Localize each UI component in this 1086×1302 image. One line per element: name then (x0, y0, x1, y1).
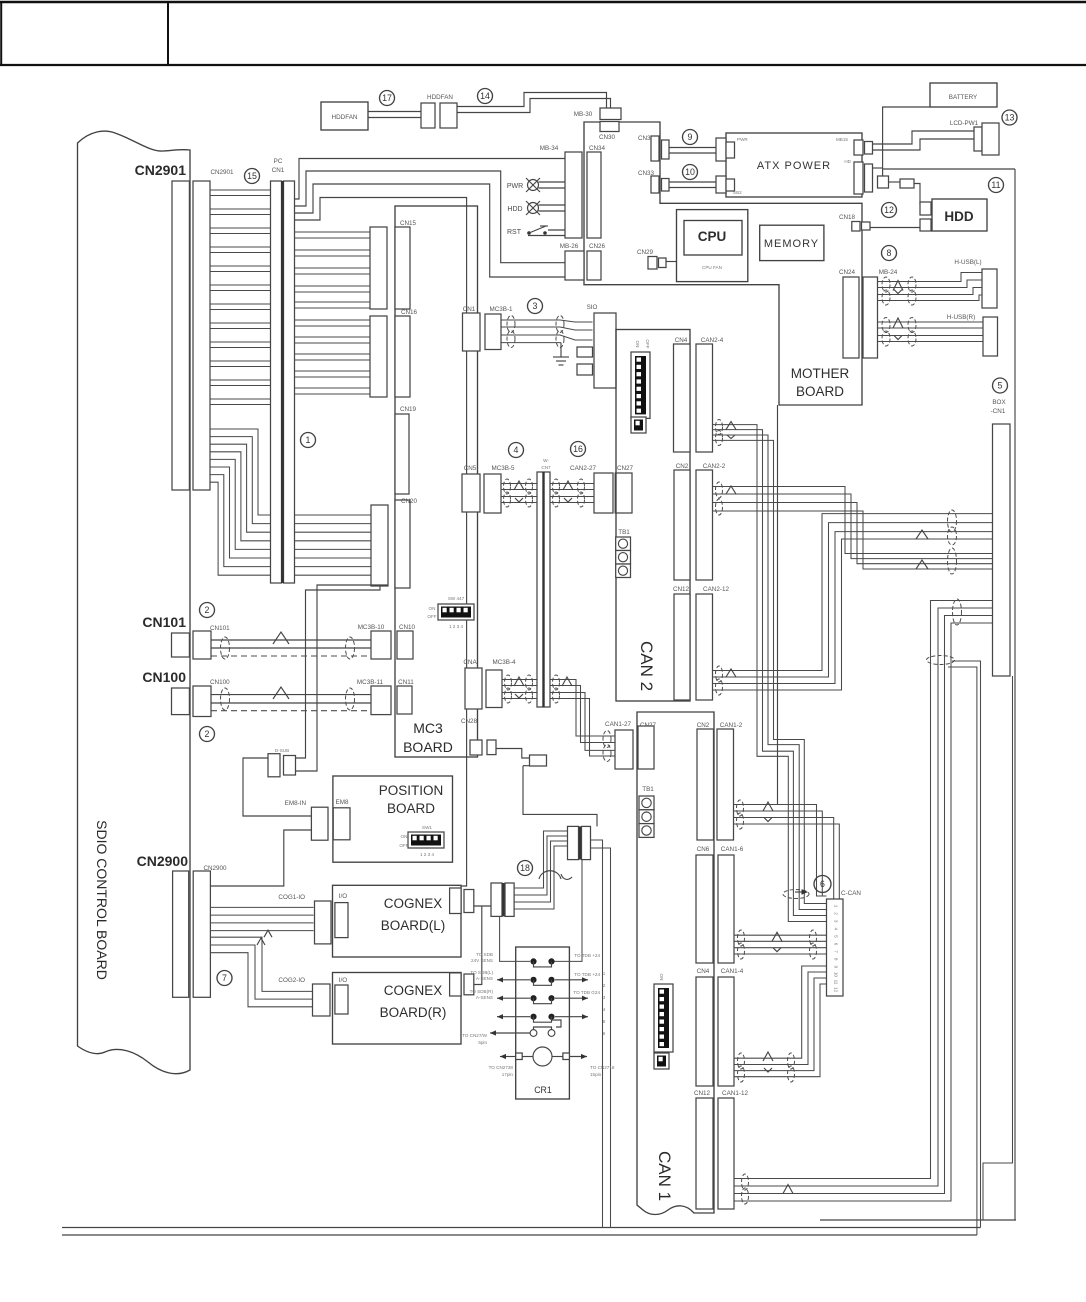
svg-text:1 2 3 4: 1 2 3 4 (420, 852, 434, 857)
connector CAN1-12 (718, 1098, 734, 1209)
wire MC3B-5 to W-CN7 bar (501, 483, 537, 485)
BATTERY box (930, 83, 997, 107)
svg-text:MOTHER: MOTHER (791, 366, 850, 381)
svg-text:MEMORY: MEMORY (764, 238, 819, 250)
svg-text:7: 7 (834, 950, 839, 953)
connector D-SUB b (284, 756, 296, 776)
svg-text:CN18: CN18 (839, 214, 856, 221)
ribbon cable PC CN1 to CN15 (295, 231, 371, 233)
svg-text:CAN1-6: CAN1-6 (721, 846, 744, 853)
svg-text:CPU FAN: CPU FAN (702, 265, 722, 270)
svg-text:MB-30: MB-30 (574, 111, 593, 118)
svg-text:17: 17 (382, 93, 392, 103)
connector CN4 (674, 344, 691, 452)
connector C-CAN (827, 899, 844, 996)
MOTHER BOARD outline (584, 122, 862, 405)
connector CAN2-4 (696, 344, 713, 452)
CPU outer box (677, 210, 748, 282)
DIP switch (position board) (408, 832, 444, 848)
svg-text:17pin: 17pin (502, 1072, 514, 1077)
enclosure top edge (883, 168, 1015, 170)
svg-text:TB1: TB1 (642, 786, 654, 793)
connector COGNEX(L) out b (464, 890, 474, 913)
svg-text:CN100: CN100 (142, 669, 186, 685)
callout 13 (1002, 110, 1017, 125)
connector CAN1-27 (615, 730, 633, 769)
callout 1 (301, 433, 316, 448)
svg-text:CN12: CN12 (694, 1090, 711, 1097)
connector CN33 b (662, 179, 670, 192)
wire BATTERY down to node (883, 107, 930, 176)
svg-text:OFF: OFF (427, 614, 436, 619)
wire CN29 to CPU (666, 261, 677, 263)
svg-text:CN29: CN29 (637, 249, 654, 256)
svg-text:PC: PC (274, 158, 283, 165)
svg-text:EM8: EM8 (336, 799, 349, 806)
DIP switch 1pos (CAN2) (631, 417, 646, 433)
svg-text:BOARD: BOARD (387, 801, 435, 816)
connector CN100 outer (172, 688, 190, 715)
wire USB group L (878, 273, 983, 282)
connector CN2900 inner (193, 871, 210, 997)
wire ATX to LCD-PW upper (873, 131, 975, 144)
svg-text:13: 13 (1005, 113, 1015, 123)
connector CN30 (600, 122, 619, 132)
svg-text:11: 11 (991, 180, 1000, 190)
svg-text:CN10: CN10 (399, 624, 416, 631)
connector H-USB(L) (982, 269, 997, 308)
wire bus PC CN1 to MB-26 (line C) (295, 184, 565, 277)
svg-text:9: 9 (688, 132, 693, 142)
connector LCD-PW a (974, 127, 982, 151)
connector CAN2-12 (696, 594, 713, 700)
connector HDDFAN cable side (421, 103, 435, 128)
connector CN15 cable (370, 227, 387, 309)
svg-text:CAN2-12: CAN2-12 (703, 586, 729, 593)
svg-text:TO TDB +24: TO TDB +24 (574, 972, 600, 977)
connector D-SUB a (268, 754, 280, 777)
wire W-CN7 bar down to CAN1-27 (550, 680, 615, 737)
HDD box (932, 199, 987, 231)
svg-text:12: 12 (834, 987, 839, 993)
connector CN29 board (659, 258, 667, 268)
svg-text:SDIO CONTROL BOARD: SDIO CONTROL BOARD (94, 820, 110, 980)
svg-text:CN100: CN100 (210, 679, 230, 686)
svg-text:TO CN27/W: TO CN27/W (462, 1033, 488, 1038)
svg-text:HD: HD (844, 159, 851, 164)
wire USB group R (878, 321, 984, 323)
wire node box A to B (889, 181, 901, 183)
relay contact row 4 (530, 1014, 554, 1023)
horizontal loop on C-CAN feed bundle (783, 890, 809, 899)
svg-text:24V SENS: 24V SENS (471, 958, 493, 963)
svg-text:I/O: I/O (339, 893, 347, 900)
svg-text:CN4: CN4 (697, 968, 710, 975)
wire ATX lower out to node (873, 167, 883, 169)
connector CN28 b (487, 740, 496, 755)
connector node box A (878, 176, 889, 188)
svg-text:CN2900: CN2900 (137, 853, 189, 869)
svg-text:BOARD: BOARD (796, 384, 844, 399)
svg-text:OFF: OFF (645, 339, 650, 348)
header table bottom border (0, 64, 1086, 66)
wire bundle CAN2-12 to BOX-CN1 (713, 514, 993, 671)
svg-text:7: 7 (222, 973, 227, 983)
svg-text:12: 12 (884, 205, 894, 215)
relay row 5 (aux contact) (530, 1017, 561, 1037)
wire MC3B-4 to W-CN7 bar (502, 679, 537, 681)
ribbon staircase bundle to CN20 (210, 429, 371, 515)
MEMORY box (760, 225, 824, 260)
connector MB-24 (863, 277, 878, 358)
SDIO CONTROL BOARD outline (78, 131, 191, 1074)
connector CN33 a (651, 176, 659, 193)
svg-text:MC3: MC3 (413, 720, 443, 736)
connector CN5 (462, 474, 480, 512)
header table top border (0, 1, 1086, 4)
svg-text:TO CN2718: TO CN2718 (590, 1065, 615, 1070)
svg-text:HDDFAN: HDDFAN (427, 94, 453, 101)
wire bundle CAN2-4 down to C-CAN (713, 425, 827, 922)
svg-text:15pin: 15pin (590, 1072, 602, 1077)
DIP switch 8pos (CAN2) (631, 352, 650, 418)
connector CAN1-4 (718, 977, 734, 1086)
callout 3 (528, 299, 543, 314)
connector 18b left (568, 826, 579, 859)
svg-text:5: 5 (603, 1019, 606, 1024)
connector 18a right (505, 883, 514, 916)
svg-text:CN5: CN5 (464, 465, 477, 472)
svg-text:TO SDB: TO SDB (476, 952, 493, 957)
callout 14 (478, 89, 493, 104)
svg-text:RST: RST (507, 229, 522, 236)
wire C18b down to CR1 row1 (554, 860, 582, 962)
wire bus PC CN1 to MB-34 (295, 159, 565, 200)
svg-text:CN1: CN1 (463, 306, 476, 313)
wire ATX to LCD-PW lower (873, 139, 975, 150)
terminal block TB1 (CAN1) (639, 796, 654, 810)
connector MC3B-5 (484, 474, 501, 513)
svg-text:TO CN2738: TO CN2738 (489, 1065, 514, 1070)
callout 7 (217, 971, 232, 986)
connector CN101 inner (193, 631, 211, 659)
svg-text:CN4: CN4 (675, 337, 688, 344)
svg-text:CR1: CR1 (534, 1085, 552, 1095)
svg-text:HDDFAN: HDDFAN (332, 114, 358, 121)
connector EM8 (333, 808, 350, 840)
svg-text:A-SENS: A-SENS (476, 995, 493, 1000)
callout 2 (lower) (200, 727, 215, 742)
svg-text:CN27: CN27 (617, 465, 634, 472)
svg-text:BOARD(L): BOARD(L) (381, 918, 446, 933)
connector LCD-PW b (982, 123, 999, 155)
ribbon cable PC CN1 to CN16 (295, 319, 371, 321)
svg-text:BOARD: BOARD (403, 739, 453, 755)
connector HDD upper (920, 202, 931, 215)
connector CN10 (397, 631, 413, 659)
connector 18b right (582, 826, 591, 859)
svg-text:CN26: CN26 (589, 243, 606, 250)
svg-text:COG1-IO: COG1-IO (278, 894, 305, 901)
svg-text:SW 447: SW 447 (448, 596, 465, 601)
connector ATX lower-left inner (726, 179, 735, 191)
connector CN16 cable (370, 316, 387, 397)
header table column divider (167, 2, 169, 65)
connector CN12 (CAN1) (696, 1098, 713, 1209)
ATX POWER box (726, 133, 862, 197)
CAN 2 board outline (616, 330, 690, 702)
svg-text:6: 6 (820, 879, 825, 889)
connector COG1-IO b (335, 903, 348, 938)
svg-text:5pin: 5pin (478, 1040, 487, 1045)
svg-text:ON: ON (635, 341, 640, 348)
connector CN16 board (395, 316, 410, 397)
connector ATX out lower a (854, 162, 863, 194)
svg-text:TB1: TB1 (618, 529, 630, 536)
enclosure right edge (1014, 169, 1016, 1220)
connector COGNEX(L) out a (450, 888, 462, 914)
svg-text:1 2 3 4: 1 2 3 4 (449, 624, 463, 629)
connector CN27 (CAN2) (615, 473, 632, 513)
svg-text:SW1: SW1 (422, 825, 432, 830)
svg-text:2: 2 (205, 729, 210, 739)
ground symbol (553, 343, 569, 365)
connector CN18 a (852, 222, 860, 232)
enclosure bottom right edge (820, 1219, 1016, 1221)
connector MC3B-10 (371, 631, 391, 659)
svg-text:BATTERY: BATTERY (949, 94, 978, 101)
svg-text:3: 3 (834, 920, 839, 923)
svg-text:CAN2-27: CAN2-27 (570, 465, 596, 472)
wire PC CN1 down to COGNEX connector (line D) (295, 198, 467, 887)
svg-text:CAN1-2: CAN1-2 (720, 722, 743, 729)
callout 2 (upper) (200, 603, 215, 618)
svg-text:MC3B-10: MC3B-10 (358, 624, 385, 631)
header table left border (0, 2, 2, 65)
svg-text:H-USB(R): H-USB(R) (947, 314, 975, 321)
svg-text:CN19: CN19 (400, 406, 417, 413)
connector CN4 (CAN1) (696, 977, 713, 1086)
connector CN32 a (651, 136, 659, 161)
svg-text:CN101: CN101 (142, 614, 186, 630)
wire bus PC CN1 to MB-26 (line B) (295, 171, 565, 263)
loop at CAN1-27 (603, 731, 611, 748)
callout 16 (571, 442, 586, 457)
svg-text:C-CAN: C-CAN (841, 890, 861, 897)
wire CN2900 to COG1-IO (210, 906, 313, 908)
svg-text:D-SUB: D-SUB (275, 748, 289, 753)
connector CN19 board (395, 414, 409, 494)
connector CN101 outer (172, 633, 190, 657)
wire bundle CAN1-6 to C-CAN (734, 934, 827, 936)
svg-text:CN7: CN7 (541, 465, 551, 470)
hose arc over bundle (539, 871, 572, 880)
ribbon cable CN2901 to PC CN1 (paired lines) (210, 189, 271, 191)
callout 11 (989, 178, 1004, 193)
POSITION BOARD box (333, 776, 453, 862)
connector 18a left (491, 883, 502, 916)
terminal block TB1 (CAN2) (616, 537, 631, 551)
svg-text:CN101: CN101 (210, 625, 230, 632)
right corner verticals (952, 661, 981, 1228)
connector PC CN1 bar A (271, 181, 282, 583)
connector MB-34 (565, 152, 582, 238)
connector ATX out upper b (865, 142, 873, 155)
svg-text:CAN1-4: CAN1-4 (721, 968, 744, 975)
svg-text:3: 3 (603, 995, 606, 1000)
svg-text:8: 8 (887, 248, 892, 258)
connector CN29 cable (648, 257, 657, 270)
relay CR1 box (516, 947, 570, 1099)
wire W-CN7 bar to CAN2-27 (550, 483, 594, 485)
connector ATX lower-left (716, 176, 726, 193)
connector MC3B-1 (485, 314, 501, 350)
svg-text:TO SDB(L): TO SDB(L) (470, 970, 493, 975)
svg-text:MC3B-11: MC3B-11 (357, 679, 384, 686)
connector CN27 (CAN1) (638, 726, 654, 769)
relay contact row 2 (530, 977, 554, 986)
svg-text:MC3B-5: MC3B-5 (491, 465, 515, 472)
connector CN2900 outer (173, 871, 189, 997)
wire CN20 tail to D-SUB (296, 585, 389, 771)
bottom border line 2 (62, 1234, 977, 1236)
svg-text:1: 1 (603, 971, 606, 976)
svg-text:CN16: CN16 (401, 309, 418, 316)
svg-text:CN11: CN11 (398, 679, 414, 686)
connector CN11 (397, 686, 412, 714)
svg-text:EM8-IN: EM8-IN (285, 800, 307, 807)
connector CN2901 (board side) (172, 181, 189, 490)
connector BOX-CN1 (993, 424, 1011, 676)
svg-text:CAN2-4: CAN2-4 (701, 337, 724, 344)
wire C18a down to CR1 row1 (500, 916, 530, 961)
svg-text:LCD-PW1: LCD-PW1 (950, 120, 979, 127)
connector PC CN1 bar B (284, 181, 295, 583)
wire CN2900 to COG2-IO (210, 937, 312, 991)
svg-text:5: 5 (998, 381, 1003, 391)
svg-text:BOARD(R): BOARD(R) (380, 1005, 447, 1020)
svg-text:CN30: CN30 (599, 134, 616, 141)
wire junction box down to relay connector (523, 766, 597, 827)
svg-text:CN24: CN24 (839, 269, 856, 276)
relay contact row 3 (530, 995, 554, 1004)
svg-text:COGNEX: COGNEX (384, 983, 443, 998)
connector CN1 (MC3) (463, 313, 481, 351)
svg-text:CAN 2: CAN 2 (637, 641, 656, 691)
svg-text:CN20: CN20 (401, 498, 418, 505)
connector ATX out upper a (854, 140, 863, 155)
wire HDDFAN to connector (368, 111, 421, 113)
connector ATX PWR-in upper (716, 138, 726, 161)
wire CN33 to ATX (669, 181, 716, 183)
connector HDDFAN board side (440, 103, 457, 128)
svg-text:9: 9 (834, 966, 839, 969)
connector CAN2-2 (696, 470, 713, 580)
connector CN20 board (395, 500, 410, 588)
svg-text:COG2-IO: COG2-IO (278, 977, 305, 984)
svg-text:2: 2 (205, 605, 210, 615)
svg-text:4: 4 (514, 445, 519, 455)
DIP switch 8pos (CAN1) (654, 984, 673, 1052)
svg-text:ON: ON (659, 974, 664, 981)
wire COGNEX(L) out to junction 18 (474, 905, 491, 907)
relay contact row 1 (530, 958, 554, 967)
COGNEX BOARD(L) box (333, 885, 462, 957)
svg-text:CAN1-27: CAN1-27 (605, 721, 631, 728)
svg-text:W-: W- (543, 458, 549, 463)
connector CN100 inner (193, 686, 211, 717)
connector CN34 (587, 152, 601, 238)
connector HDD lower (920, 219, 931, 231)
connector COG1-IO a (315, 901, 332, 944)
svg-text:COGNEX: COGNEX (384, 896, 443, 911)
connector CN26 (587, 251, 601, 280)
svg-text:MB-34: MB-34 (540, 145, 559, 152)
svg-text:TO TDB +24: TO TDB +24 (574, 953, 600, 958)
svg-text:BOX: BOX (992, 399, 1006, 406)
svg-text:PWR: PWR (737, 137, 748, 142)
connector CAN1-2 (717, 729, 734, 840)
connector COGNEX(R) out b (464, 974, 474, 995)
callout 17 (380, 91, 395, 106)
wire motherboard down to CAN1 area (777, 405, 779, 805)
svg-text:1: 1 (834, 905, 839, 908)
svg-text:18: 18 (520, 863, 530, 873)
connector CN15 board (395, 227, 410, 309)
wire bundle CAN1-12 to BOX-CN1 (734, 601, 993, 1179)
svg-text:ON: ON (401, 834, 408, 839)
svg-text:SIO: SIO (587, 304, 598, 311)
svg-text:HDD: HDD (944, 209, 973, 224)
COGNEX BOARD(R) box (333, 973, 462, 1045)
svg-text:14: 14 (480, 91, 490, 101)
connector CN32 b (662, 140, 670, 159)
wire CN32 to ATX (669, 147, 716, 149)
CPU inner box (684, 221, 742, 256)
wires C18a up through hose to C18b (514, 831, 567, 888)
enclosure inner corner (983, 676, 1013, 1220)
connector CN18 b (862, 222, 871, 230)
wire bundle CAN1-2 down to C-CAN (734, 805, 827, 897)
connector CN2 (CAN2) (674, 470, 690, 580)
svg-text:MC3B-4: MC3B-4 (492, 659, 516, 666)
svg-text:HDD: HDD (507, 206, 522, 213)
connector CAN2-27 (594, 473, 613, 513)
svg-text:CN2901: CN2901 (210, 169, 234, 176)
connector ATX PWR-in upper inner (726, 142, 735, 158)
svg-text:CAN 1: CAN 1 (655, 1151, 674, 1201)
connector CN12 (CAN2) (674, 594, 690, 700)
svg-text:MB-26: MB-26 (560, 243, 579, 250)
connector SIO (594, 313, 616, 388)
svg-text:2: 2 (834, 912, 839, 915)
svg-text:8: 8 (834, 958, 839, 961)
svg-text:ATX POWER: ATX POWER (757, 160, 831, 172)
wire bundle CAN2-2 to BOX-CN1 (713, 487, 993, 554)
svg-text:CAN1-12: CAN1-12 (722, 1090, 748, 1097)
svg-text:4: 4 (603, 1007, 606, 1012)
connector H-USB(R) (983, 317, 998, 356)
MC3 BOARD outline (395, 206, 478, 757)
svg-text:6: 6 (603, 1031, 606, 1036)
svg-text:A-SENS: A-SENS (476, 976, 493, 981)
callout 4 (509, 443, 524, 458)
connector COG2-IO a (313, 984, 331, 1016)
relay coil CR1 (516, 1047, 570, 1066)
svg-text:CN2: CN2 (676, 463, 689, 470)
callout 9 (683, 130, 698, 145)
wire CN2900 up to EM8-IN (210, 830, 311, 886)
